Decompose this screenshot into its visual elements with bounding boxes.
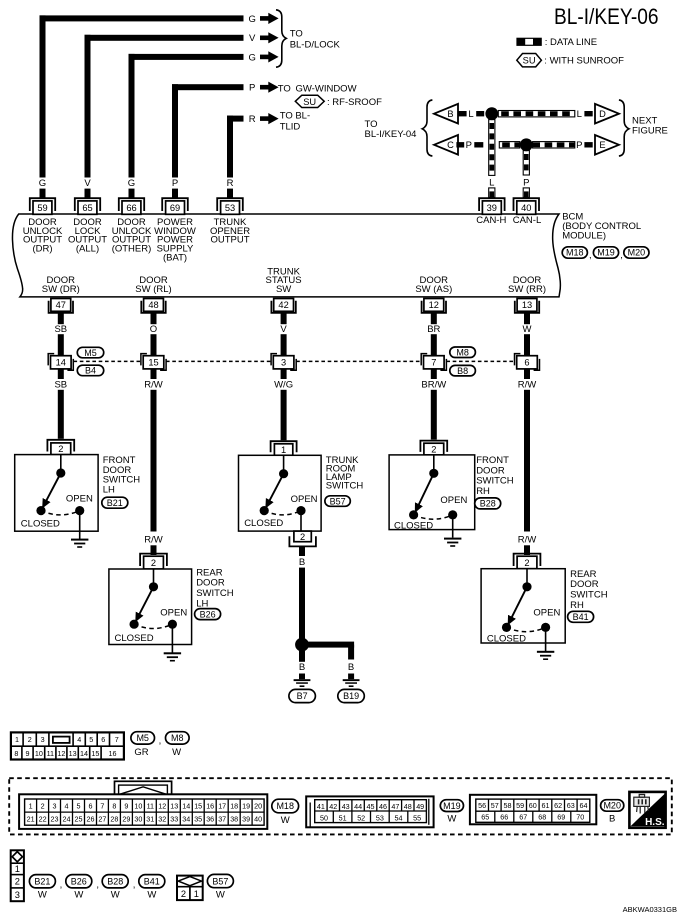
svg-text:SB: SB (54, 380, 67, 391)
svg-text:B28: B28 (107, 877, 123, 887)
wire color label BR/W lower (421, 380, 446, 391)
wire B to junction (299, 568, 305, 639)
svg-text:B: B (348, 662, 354, 673)
svg-text:W: W (523, 324, 532, 335)
svg-text:W: W (38, 890, 47, 901)
svg-text:68: 68 (538, 813, 546, 822)
svg-text:G: G (128, 178, 135, 189)
svg-text:65: 65 (82, 203, 92, 213)
svg-text:5: 5 (77, 801, 81, 810)
legend data line symbol (517, 38, 541, 45)
svg-text:M5: M5 (84, 348, 97, 358)
label TO BL-TLID (280, 111, 310, 133)
svg-text:R/W: R/W (144, 380, 163, 391)
svg-text:49: 49 (416, 802, 424, 811)
vertical data line CAN-H (489, 120, 495, 176)
svg-text:20: 20 (254, 801, 262, 810)
svg-text:SWITCH: SWITCH (326, 481, 364, 492)
svg-text:BL-I/KEY-06: BL-I/KEY-06 (554, 4, 659, 29)
svg-text:W: W (147, 890, 156, 901)
svg-text:5: 5 (89, 735, 93, 744)
svg-text:LH: LH (103, 485, 115, 496)
svg-text:D: D (599, 109, 606, 119)
connector symbol 2-1 with rhombus (177, 876, 203, 901)
svg-text:47: 47 (56, 300, 66, 310)
svg-text:B41: B41 (573, 612, 589, 622)
inline connector 3 (271, 354, 296, 371)
svg-text:2: 2 (15, 877, 20, 887)
label P above connector 40 (523, 177, 529, 188)
triangle B (CAN-H from key-04) (434, 104, 458, 124)
oval M8 (450, 347, 476, 358)
oval B26 (195, 609, 221, 620)
svg-text:LH: LH (196, 598, 208, 609)
label R at arrow (249, 114, 256, 125)
wire stub into connector col3 (129, 189, 135, 198)
triangle D (CAN-H to next figure) (595, 104, 619, 124)
rear door switch RH B41 (481, 569, 565, 651)
svg-text:P: P (576, 140, 582, 151)
svg-text:58: 58 (504, 801, 512, 810)
connector 47 (49, 299, 73, 313)
comma b3 (133, 879, 136, 890)
oval B7 (289, 689, 316, 702)
wire color label V (280, 324, 287, 335)
label CAN-H (476, 215, 506, 226)
label DOOR SW (RR) (508, 275, 546, 295)
label door lock output ALL (68, 217, 107, 254)
svg-text:18: 18 (230, 801, 238, 810)
wire B below trunk switch (299, 546, 305, 556)
svg-text:B21: B21 (107, 498, 123, 508)
svg-text:45: 45 (367, 802, 375, 811)
svg-text:V: V (84, 178, 91, 189)
svg-text:21: 21 (27, 815, 35, 824)
ground front door switch RH (444, 538, 461, 547)
label FRONT DOOR SWITCH LH (103, 455, 141, 496)
svg-text:P: P (466, 140, 472, 151)
dashed detail box (9, 778, 672, 834)
wire color label R/W above rear LH switch (144, 535, 163, 546)
label L left (468, 109, 473, 120)
svg-text:R: R (249, 114, 256, 125)
oval M5 (77, 347, 103, 358)
svg-text:BL-I/KEY-04: BL-I/KEY-04 (365, 129, 417, 140)
svg-text:FIGURE: FIGURE (632, 126, 668, 137)
connector 2 (front door switch LH) (47, 440, 74, 455)
svg-text:RH: RH (476, 486, 490, 497)
svg-text:46: 46 (379, 802, 387, 811)
svg-text:53: 53 (225, 203, 235, 213)
svg-text:36: 36 (206, 815, 214, 824)
label TO GW-WINDOW (278, 83, 357, 94)
svg-text:42: 42 (278, 300, 288, 310)
terminal strip with diamond (11, 850, 24, 901)
inline connector 14 (48, 354, 73, 371)
svg-text:22: 22 (39, 815, 47, 824)
svg-text:51: 51 (339, 813, 347, 822)
svg-text:6: 6 (524, 358, 529, 368)
oval B21 bottom (29, 875, 55, 888)
label BCM text (562, 211, 641, 241)
svg-text:40: 40 (254, 815, 262, 824)
legend SU symbol (517, 54, 542, 67)
ground rear door switch RH (537, 651, 554, 660)
label : RF-SROOF (327, 97, 382, 108)
svg-text:V: V (249, 33, 256, 44)
comma b2 (96, 879, 99, 890)
arrow to G row 3 (260, 51, 279, 62)
legend with sunroof text (544, 55, 624, 66)
svg-text:M18: M18 (566, 248, 584, 258)
data line P dash after label (474, 142, 483, 147)
svg-text:13: 13 (170, 801, 178, 810)
wire color label W/G lower (274, 380, 293, 391)
svg-text:31: 31 (146, 815, 154, 824)
svg-text:B: B (609, 814, 615, 825)
title BL-I/KEY-06 (554, 4, 659, 29)
svg-text:13: 13 (522, 300, 532, 310)
oval B28 bottom (102, 875, 128, 888)
label P left (466, 140, 472, 151)
oval B41 (568, 611, 594, 622)
svg-text:SU: SU (303, 97, 316, 107)
dash after B (458, 111, 466, 116)
svg-text:44: 44 (354, 802, 362, 811)
label W under B28 (111, 890, 120, 901)
svg-text:2: 2 (524, 558, 529, 568)
label DOOR SW (DR) (42, 275, 80, 295)
connector M18 hood (115, 781, 172, 795)
svg-text:64: 64 (580, 801, 588, 810)
connector grid M20 (470, 795, 596, 825)
svg-text:24: 24 (63, 815, 71, 824)
svg-text:MODULE): MODULE) (562, 231, 606, 242)
wire color label G above connector (128, 178, 135, 189)
connector 13 (515, 299, 539, 313)
connector 48 (141, 299, 165, 313)
svg-text:30: 30 (134, 815, 142, 824)
svg-text:SW (RL): SW (RL) (135, 284, 171, 295)
svg-text:M19: M19 (597, 248, 615, 258)
svg-text:2: 2 (431, 444, 436, 454)
svg-text:M20: M20 (628, 248, 646, 258)
svg-text:C: C (447, 140, 454, 150)
svg-text:40: 40 (521, 203, 531, 213)
svg-text:B57: B57 (330, 496, 346, 506)
svg-text:P: P (523, 177, 529, 188)
svg-text:8: 8 (14, 749, 18, 758)
oval B57 bottom (207, 874, 233, 887)
svg-text:B: B (447, 109, 453, 119)
svg-text:7: 7 (431, 358, 436, 368)
label power window power supply BAT (154, 217, 196, 263)
wire V (door lock output) (85, 35, 244, 178)
svg-text:69: 69 (557, 813, 565, 822)
label W under B41 (147, 890, 156, 901)
wire color label G above connector (39, 178, 46, 189)
svg-text:G: G (249, 52, 256, 63)
svg-text:11: 11 (47, 749, 54, 758)
svg-text:CLOSED: CLOSED (394, 521, 433, 532)
svg-text:38: 38 (230, 815, 238, 824)
arrow to V row 2 (260, 32, 279, 43)
wire color label R above connector (227, 178, 234, 189)
svg-text:CAN-L: CAN-L (513, 215, 542, 226)
svg-text:W: W (111, 890, 120, 901)
svg-text:3: 3 (41, 735, 45, 744)
svg-text:BL-D/LOCK: BL-D/LOCK (290, 39, 341, 50)
label REAR DOOR SWITCH RH (570, 569, 608, 611)
svg-text:4: 4 (77, 735, 81, 744)
svg-text:53: 53 (376, 813, 384, 822)
wire R/W below inline connector col5 (524, 369, 530, 532)
svg-text:CLOSED: CLOSED (487, 634, 526, 645)
label FRONT DOOR SWITCH RH (476, 455, 514, 497)
label NEXT FIGURE (632, 115, 668, 136)
svg-text:3: 3 (53, 801, 57, 810)
svg-text:: WITH SUNROOF: : WITH SUNROOF (544, 55, 624, 66)
wire stub into connector col5 (227, 189, 233, 198)
svg-text:OPEN: OPEN (160, 608, 187, 619)
label DOOR SW (AS) (415, 275, 452, 295)
svg-text:3: 3 (15, 890, 20, 900)
svg-text:10: 10 (35, 749, 43, 758)
svg-text:8: 8 (112, 801, 116, 810)
svg-text:2: 2 (300, 532, 305, 542)
svg-text:RH: RH (570, 600, 584, 611)
svg-text:66: 66 (126, 203, 136, 213)
wire color label SB (54, 324, 67, 335)
label CAN-L (513, 215, 542, 226)
triangle C (CAN-L from key-04) (434, 135, 458, 155)
label TO BL-I/KEY-04 (365, 119, 417, 140)
label W under B26 (74, 890, 83, 901)
svg-text:37: 37 (218, 815, 226, 824)
label P right (576, 140, 582, 151)
svg-text:65: 65 (481, 813, 489, 822)
svg-text:TLID: TLID (280, 122, 301, 133)
svg-text:: RF-SROOF: : RF-SROOF (327, 97, 382, 108)
label trunk opener output (210, 217, 250, 246)
dash before junction CAN-H (476, 111, 484, 116)
svg-text:1: 1 (281, 445, 286, 455)
svg-text:OPEN: OPEN (66, 493, 93, 504)
svg-text:9: 9 (26, 749, 30, 758)
connector 42 (271, 299, 295, 313)
SU hexagon RF-SROOF (295, 95, 324, 107)
svg-text:19: 19 (242, 801, 250, 810)
svg-text:CAN-H: CAN-H (476, 215, 506, 226)
wire BR/W below inline connector col4 (431, 369, 437, 440)
svg-text:OUTPUT: OUTPUT (210, 235, 249, 246)
svg-text:55: 55 (413, 813, 421, 822)
svg-text:B57: B57 (212, 876, 228, 886)
oval B57 at switch (325, 496, 350, 507)
svg-text:R/W: R/W (144, 535, 163, 546)
wire SB below inline connector col1 (58, 369, 64, 439)
wire color label V above connector (84, 178, 91, 189)
svg-text:1: 1 (15, 735, 19, 744)
svg-text:,: , (60, 879, 63, 890)
svg-text:,: , (133, 879, 136, 890)
HS logo (629, 792, 665, 828)
svg-text:48: 48 (404, 802, 412, 811)
connector 2 below trunk switch (289, 531, 316, 546)
inline connector 6 (515, 354, 540, 371)
svg-text:56: 56 (478, 801, 486, 810)
label TO BL-D/LOCK (290, 29, 341, 51)
svg-text:59: 59 (37, 203, 47, 213)
svg-text:B7: B7 (297, 691, 308, 701)
wire stub into rear RH switch connector (524, 545, 530, 555)
wire stub to ground B19 (348, 674, 354, 680)
svg-text:10: 10 (134, 801, 142, 810)
oval B21 (102, 497, 128, 508)
svg-text:CLOSED: CLOSED (115, 633, 154, 644)
svg-text:27: 27 (98, 815, 106, 824)
svg-text:61: 61 (542, 801, 550, 810)
front door switch RH B28 (389, 455, 475, 538)
svg-text:9: 9 (124, 801, 128, 810)
svg-text:BR/W: BR/W (421, 380, 446, 391)
data line CAN-H to D (498, 111, 575, 117)
wire color label R/W above rear RH switch (518, 535, 537, 546)
junction dot CAN-H (485, 107, 498, 120)
svg-text:35: 35 (194, 815, 202, 824)
oval M18 bottom (272, 799, 299, 813)
svg-text:23: 23 (51, 815, 59, 824)
data line CAN-L junction to E (533, 142, 575, 148)
svg-text:(ALL): (ALL) (76, 244, 99, 255)
svg-text:R: R (227, 178, 234, 189)
ground front door switch LH (71, 539, 88, 548)
svg-text:63: 63 (567, 801, 575, 810)
ground B7 (294, 679, 311, 687)
inline connector 15 (141, 354, 166, 371)
svg-text:32: 32 (158, 815, 166, 824)
svg-text:(BAT): (BAT) (163, 252, 187, 263)
svg-text:12: 12 (158, 801, 166, 810)
label W under M19 (447, 813, 456, 824)
svg-text:TO: TO (278, 83, 291, 94)
dash before E (584, 142, 592, 147)
svg-text:G: G (39, 178, 46, 189)
connector 12 (422, 299, 446, 313)
svg-text:GR: GR (134, 747, 148, 758)
svg-text:7: 7 (100, 801, 104, 810)
svg-text:ABKWA0331GB: ABKWA0331GB (623, 905, 677, 914)
svg-text:B26: B26 (71, 877, 87, 887)
connector 1 (trunk room lamp switch) (271, 441, 297, 455)
svg-text:6: 6 (89, 801, 93, 810)
connector 2 (rear door switch RH) (514, 554, 541, 569)
svg-text:39: 39 (487, 203, 497, 213)
svg-text:O: O (150, 324, 157, 335)
connector 40 (514, 198, 540, 214)
svg-text:41: 41 (317, 802, 325, 811)
oval B19 (338, 689, 365, 702)
svg-text:54: 54 (395, 813, 403, 822)
label DOOR SW (RL) (135, 275, 171, 295)
vertical data line CAN-L (523, 151, 529, 175)
legend data line text (545, 37, 597, 48)
comma 1 (589, 250, 592, 261)
wire color label O (150, 324, 157, 335)
connector 59 (30, 198, 55, 214)
wire G (door unlock output other) (129, 54, 244, 178)
label V at arrow (249, 33, 256, 44)
label L right (577, 109, 582, 120)
svg-text:52: 52 (357, 813, 365, 822)
wire V from connector to inline (trunk status) (281, 313, 287, 356)
wire R/W below inline connector col2 (151, 369, 157, 532)
wire stub into connector col1 (40, 189, 46, 198)
wire O from connector to inline (door SW RL) (151, 313, 157, 356)
dash before D (584, 111, 592, 116)
label B right (348, 662, 354, 673)
triangle E (CAN-L to next figure) (595, 135, 619, 155)
svg-text:2: 2 (151, 558, 156, 568)
connector oval M20 label (624, 247, 649, 258)
svg-text:L: L (489, 177, 494, 188)
ground B19 (343, 679, 360, 687)
svg-text:: DATA LINE: : DATA LINE (545, 37, 597, 48)
wire B junction down (299, 651, 305, 662)
svg-text:M8: M8 (456, 348, 469, 358)
label GR (134, 747, 148, 758)
connector oval M19 label (593, 247, 618, 258)
svg-text:4: 4 (65, 801, 69, 810)
label L above connector 39 (489, 177, 494, 188)
svg-text:13: 13 (69, 749, 77, 758)
connector 65 (75, 198, 100, 214)
svg-text:15: 15 (91, 749, 99, 758)
svg-text:50: 50 (320, 813, 328, 822)
connector oval M18 label (562, 247, 587, 258)
svg-text:1: 1 (194, 889, 199, 899)
wire color label P above connector (172, 178, 178, 189)
label W under B21 (38, 890, 47, 901)
label door unlock output DR (23, 217, 63, 254)
svg-text:W: W (447, 813, 456, 824)
svg-text:SB: SB (54, 324, 67, 335)
front door switch LH B21 (15, 455, 98, 540)
label P at arrow (249, 83, 255, 94)
label B left (299, 662, 305, 673)
svg-text:69: 69 (170, 203, 180, 213)
dashed harness line between inline connectors (74, 360, 515, 362)
wire from open contact to lower connector (300, 511, 302, 531)
svg-text:,: , (96, 879, 99, 890)
svg-text:OPEN: OPEN (291, 494, 318, 505)
svg-text:57: 57 (491, 801, 499, 810)
svg-text:60: 60 (529, 801, 537, 810)
svg-text:(DR): (DR) (32, 244, 52, 255)
label W under M8 (172, 747, 181, 758)
data line stub into 40 (523, 188, 529, 198)
svg-text:14: 14 (80, 749, 88, 758)
data line stub into 39 (489, 188, 495, 198)
wire R (trunk opener output) (227, 116, 244, 178)
svg-text:59: 59 (516, 801, 524, 810)
connector grid M19 (306, 796, 433, 827)
svg-text:2: 2 (28, 735, 32, 744)
svg-text:CLOSED: CLOSED (244, 518, 283, 529)
label door unlock output OTHER (112, 217, 152, 254)
svg-text:16: 16 (206, 801, 214, 810)
svg-text:7: 7 (115, 735, 119, 744)
